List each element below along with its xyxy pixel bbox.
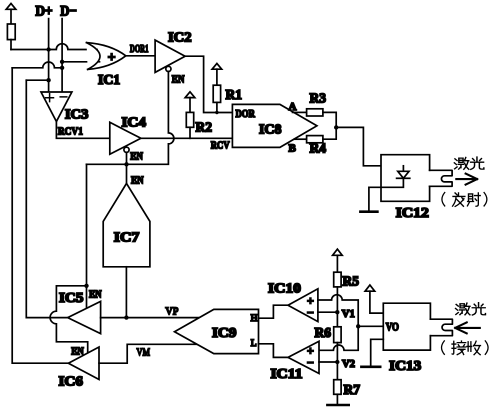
arrow right (emit) (456, 174, 477, 185)
wire IC2 out to DOR of IC8 (185, 56, 232, 112)
svg-text:D+: D+ (35, 4, 52, 20)
resistor (pull-up, unlabeled) (7, 24, 15, 50)
svg-text:IC12: IC12 (396, 205, 429, 220)
socket IC12 (430, 170, 453, 186)
resistor R3 (307, 109, 323, 116)
svg-text:IC7: IC7 (114, 230, 140, 245)
svg-text:EN: EN (130, 150, 143, 162)
label 激光 (transmit) (454, 157, 468, 169)
label （接收） (442, 341, 445, 354)
buffer IC2 (155, 40, 185, 72)
wire IC6 right to VM line (99, 344, 197, 363)
svg-text:VO: VO (386, 322, 399, 334)
box IC13 (383, 303, 430, 350)
node V1 (335, 310, 339, 314)
svg-text:−: − (307, 355, 314, 369)
resistor R7 (334, 380, 341, 395)
or-gate IC1 (87, 43, 126, 70)
pentagon IC8 (232, 104, 317, 147)
svg-text:EN: EN (172, 74, 185, 86)
power arrow top-left (6, 4, 16, 25)
wire H to IC10 (259, 305, 289, 318)
svg-text:L: L (251, 339, 257, 349)
wire B to R4 (294, 138, 306, 140)
svg-text:IC6: IC6 (59, 374, 84, 389)
wire R6 to R7 (336, 343, 338, 380)
svg-text:B: B (289, 143, 297, 155)
svg-text:EN: EN (89, 289, 102, 301)
pentagon IC9 (175, 309, 259, 353)
svg-text:+: + (108, 50, 116, 65)
node EN at IC5 (84, 284, 88, 288)
svg-text:IC1: IC1 (98, 72, 120, 87)
resistor R5 (334, 272, 341, 287)
wire A to R3 (293, 111, 307, 113)
svg-text:IC5: IC5 (59, 290, 84, 305)
wire IC4 out / RCV line to IC8 (141, 137, 233, 139)
svg-text:IC9: IC9 (212, 325, 237, 340)
wire R7 to ground (336, 394, 338, 405)
wire IC3 out to IC4 (56, 122, 109, 139)
wire D+ vertical (48, 19, 50, 92)
wire EN rail down to IC5 (86, 164, 88, 285)
node D+/rail line (46, 78, 50, 82)
svg-text:R5: R5 (343, 273, 360, 288)
svg-text:V2: V2 (342, 358, 355, 370)
power arrow R5 (333, 249, 343, 272)
wire IC4 bubble stub (126, 152, 128, 164)
power arrow R1 (212, 63, 222, 85)
svg-text:RCV: RCV (211, 139, 230, 151)
wire EN stub into IC5 (86, 286, 88, 309)
buffer IC6 (68, 347, 99, 380)
buffer IC5 (68, 301, 101, 333)
svg-text:R7: R7 (344, 382, 361, 397)
node R3/R4 (334, 125, 338, 129)
svg-text:DOR1: DOR1 (130, 43, 149, 55)
resistor R4 (307, 136, 323, 143)
label （发射） (442, 192, 445, 205)
wire R3 to node (323, 112, 336, 127)
wire left rail D- down to IC6 (12, 68, 68, 363)
wire VP line (101, 317, 199, 319)
svg-text:H: H (251, 314, 258, 324)
wire IC7 out to VP line (125, 267, 127, 318)
wire IC7 enable drop (126, 164, 128, 184)
socket IC13 (430, 319, 452, 336)
comparator IC11 (288, 341, 319, 373)
svg-text:R1: R1 (226, 87, 243, 102)
node D-/rail line (60, 66, 64, 70)
node EN junction (124, 162, 128, 166)
wire EN net from IC2 bubble down (hop over RCV) to junction (87, 72, 174, 165)
svg-text:R6: R6 (315, 325, 332, 340)
svg-text:R4: R4 (310, 141, 327, 156)
wire node to IC12 diode (336, 127, 403, 165)
resistor R1 (213, 85, 220, 112)
wire rail D+ down to IC5 (26, 80, 67, 317)
svg-text:IC13: IC13 (389, 358, 421, 373)
svg-text:D−: D− (60, 4, 76, 20)
arrow left (receive) (455, 322, 480, 333)
ground (R7) (327, 404, 348, 407)
svg-text:IC3: IC3 (65, 107, 89, 122)
wire D+ to second rail (26, 79, 48, 81)
enable bracket from EN to IC5 (hop over IC5 input) (50, 286, 88, 353)
wire top line to OR input1 (hop over D-) (11, 44, 97, 50)
svg-text:IC11: IC11 (271, 366, 303, 381)
wire IC10 + input (hop over V1 rail) (318, 295, 358, 351)
wire D- vertical (61, 19, 63, 92)
wire L to IC11 (259, 344, 289, 358)
node R1 bottom (215, 111, 218, 114)
wire R4 to node (323, 127, 336, 139)
ground (IC12) (360, 210, 377, 213)
svg-text:R2: R2 (196, 120, 213, 135)
buffer IC4 (110, 122, 141, 154)
svg-text:V1: V1 (342, 308, 355, 320)
svg-text:−: − (307, 306, 314, 320)
svg-text:A: A (289, 101, 297, 113)
wire D- to left rail (hop over D+) (12, 62, 62, 68)
node VO tap (356, 324, 360, 328)
svg-text:IC8: IC8 (259, 122, 282, 137)
box IC12 (381, 155, 430, 202)
wire IC10 - input to V1 (318, 311, 337, 313)
svg-text:R3: R3 (310, 91, 327, 106)
label 激光 (receive) (456, 303, 470, 315)
comparator IC10 (288, 289, 318, 322)
power arrow IC13 (365, 285, 383, 313)
ground (IC13) (361, 339, 383, 367)
svg-text:RCV1: RCV1 (58, 125, 83, 137)
wire IC1 out to IC2 (126, 55, 155, 57)
wire D- to OR input2 (62, 61, 100, 63)
resistor R2 (186, 112, 193, 138)
node IC7/VP (124, 315, 128, 319)
wire VO to IC13 (358, 325, 383, 327)
svg-text:VM: VM (137, 346, 151, 358)
comparator IC3 (41, 92, 72, 122)
svg-text:VP: VP (165, 305, 178, 317)
node D+/top line (46, 47, 50, 51)
resistor R6 (334, 327, 341, 343)
wire IC11 - input to V2 (319, 361, 337, 363)
laser diode inside IC12 (369, 166, 410, 211)
svg-text:DOR: DOR (236, 108, 256, 120)
node V2 (335, 360, 339, 364)
svg-text:IC2: IC2 (168, 30, 192, 45)
power arrow R2 (185, 92, 195, 113)
svg-text:EN: EN (131, 174, 144, 186)
wire R5 to R6 (336, 287, 338, 327)
node D-/input2 (60, 60, 64, 64)
svg-text:IC4: IC4 (122, 115, 147, 130)
svg-text:IC10: IC10 (268, 281, 301, 296)
block IC7 (103, 183, 150, 266)
